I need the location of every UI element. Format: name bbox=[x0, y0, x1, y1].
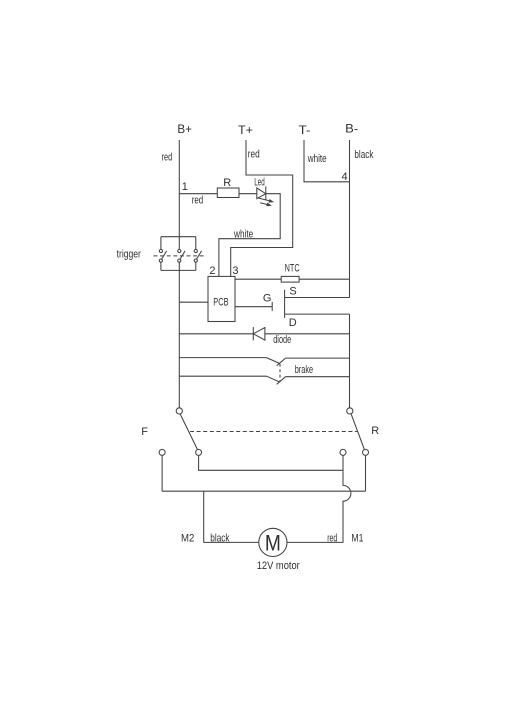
svg-text:D: D bbox=[289, 317, 297, 329]
svg-text:F: F bbox=[141, 426, 148, 438]
svg-text:Led: Led bbox=[254, 177, 264, 189]
gate bar bbox=[271, 302, 273, 311]
wire R to Led bbox=[239, 193, 257, 195]
diode D2 row bbox=[179, 327, 349, 346]
contact circle c1 bbox=[159, 449, 165, 455]
wire PCB to gate bbox=[235, 306, 272, 308]
svg-text:diode: diode bbox=[273, 334, 291, 346]
svg-text:T-: T- bbox=[299, 123, 311, 137]
channel bar bbox=[284, 290, 286, 318]
svg-text:white: white bbox=[233, 229, 253, 241]
diode D2 bbox=[252, 327, 254, 340]
svg-text:black: black bbox=[210, 533, 230, 545]
wire c2 to cA vertical bbox=[199, 455, 343, 470]
wire NTC to B- bbox=[299, 278, 349, 280]
trigger bottom bar bbox=[161, 269, 196, 271]
svg-text:B+: B+ bbox=[177, 122, 192, 136]
svg-text:NTC: NTC bbox=[285, 263, 300, 275]
svg-text:red: red bbox=[327, 532, 337, 544]
wire B+ vertical upper bbox=[178, 140, 180, 249]
trigger pole left bbox=[160, 237, 162, 250]
contact circle c2 bbox=[196, 449, 202, 455]
svg-text:R: R bbox=[371, 425, 379, 437]
svg-text:PCB: PCB bbox=[213, 296, 228, 308]
wire T- bbox=[304, 140, 350, 182]
switch R pole circle bbox=[347, 408, 353, 414]
brake dashed link bbox=[279, 364, 281, 381]
wire Led to pcb pin2 bbox=[219, 194, 280, 277]
wire cB down bbox=[365, 455, 367, 491]
wire bottom horizontal c1 to cB bbox=[162, 490, 365, 492]
svg-text:T+: T+ bbox=[238, 123, 253, 137]
wire T+ bbox=[231, 140, 293, 276]
dashed mechanical link F-R bbox=[190, 431, 358, 433]
wire diode to right vertical bbox=[265, 333, 350, 335]
brake upper blade bbox=[267, 358, 280, 364]
svg-text:1: 1 bbox=[182, 181, 188, 193]
svg-text:trigger: trigger bbox=[117, 249, 142, 261]
trigger top bar bbox=[161, 236, 196, 238]
svg-text:red: red bbox=[248, 149, 260, 161]
wire left to diode bbox=[179, 333, 253, 335]
switch F blade bbox=[180, 414, 197, 450]
svg-text:M: M bbox=[265, 530, 281, 555]
svg-text:3: 3 bbox=[232, 265, 238, 277]
svg-text:brake: brake bbox=[295, 364, 313, 376]
svg-text:S: S bbox=[289, 286, 296, 298]
svg-text:red: red bbox=[192, 195, 204, 207]
brake switch bbox=[179, 358, 349, 385]
svg-text:12V motor: 12V motor bbox=[257, 560, 300, 572]
svg-text:black: black bbox=[354, 149, 373, 161]
wire node1 to resistor R bbox=[179, 193, 217, 195]
svg-text:B-: B- bbox=[345, 122, 358, 136]
motor M1 circle bbox=[259, 528, 287, 556]
contact circle cA bbox=[340, 449, 346, 455]
brake lower right wire bbox=[286, 376, 350, 378]
thermistor NTC bbox=[281, 276, 299, 282]
wire B+ vertical lower (trigger to switch F) bbox=[178, 262, 180, 408]
trigger pole middle bbox=[178, 249, 181, 252]
svg-text:M1: M1 bbox=[351, 532, 363, 544]
source wire S bbox=[285, 297, 350, 299]
wire junction to motor M2 bbox=[204, 491, 259, 542]
trigger pole right bbox=[195, 237, 197, 250]
brake upper left wire bbox=[179, 357, 266, 359]
svg-text:white: white bbox=[307, 153, 327, 165]
svg-text:R: R bbox=[223, 177, 231, 189]
trigger switch bbox=[154, 237, 207, 271]
Led D1 bbox=[257, 186, 273, 205]
PCB U1 bbox=[208, 276, 235, 321]
svg-text:4: 4 bbox=[342, 171, 348, 183]
wire right vertical (D to switch R) bbox=[349, 314, 351, 408]
resistor R bbox=[217, 188, 239, 198]
mosfet Q1 bbox=[235, 286, 350, 330]
brake lower left wire bbox=[179, 375, 266, 377]
contact circle cB bbox=[363, 449, 369, 455]
switch F pole circle bbox=[176, 408, 182, 414]
wire c1 down bbox=[161, 455, 163, 491]
brake lower blade bbox=[267, 376, 280, 382]
svg-text:2: 2 bbox=[209, 265, 215, 277]
drain wire D bbox=[285, 313, 350, 315]
wire B- vertical bbox=[349, 140, 351, 298]
svg-text:M2: M2 bbox=[181, 532, 194, 544]
switch R blade bbox=[351, 414, 364, 450]
wire left vertical to PCB bbox=[179, 301, 208, 303]
brake upper right wire bbox=[286, 357, 350, 359]
trigger dashed actuator line bbox=[154, 255, 207, 257]
wire cA to motor M1 with hop bbox=[287, 455, 351, 542]
wire PCB to NTC bbox=[235, 278, 281, 280]
svg-text:G: G bbox=[263, 293, 272, 305]
svg-text:red: red bbox=[162, 152, 173, 164]
